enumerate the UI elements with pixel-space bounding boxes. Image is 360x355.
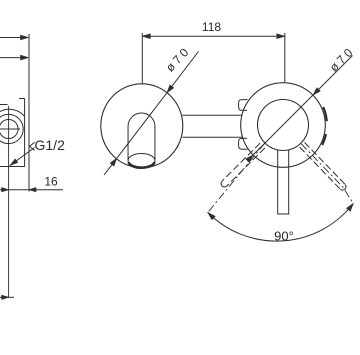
right view: handle escutcheon outer circle bbox=[241, 83, 326, 168]
right view: right slot end cap bbox=[340, 185, 346, 191]
right view: left tab upper bbox=[239, 100, 248, 111]
right ø70 leader bbox=[253, 56, 352, 155]
middle view: spout arch bbox=[128, 113, 155, 161]
middle view: spout outlet bold lower arc bbox=[128, 162, 154, 168]
right view: right position centerline bbox=[301, 144, 353, 204]
G1/2 leader open chevron at text bbox=[30, 142, 35, 150]
right view: left slot end cap bbox=[221, 181, 227, 187]
left view: vertical centerline bbox=[8, 106, 10, 297]
bottom dimension arrow at centerline bbox=[0, 296, 14, 298]
118 dimension line bbox=[142, 35, 284, 37]
connector pipe top line bbox=[183, 114, 243, 116]
left view: housing bottom edge bbox=[0, 166, 25, 168]
right view: handle lever rectangle bbox=[278, 150, 289, 214]
left view: valve inner circle bbox=[0, 120, 18, 139]
right view: handle hub inner circle bbox=[258, 100, 309, 151]
left view: plate front extension line bbox=[28, 34, 30, 192]
left view: valve outer circle bbox=[0, 114, 23, 143]
G1/2 leader bbox=[10, 148, 35, 166]
right view: right tab lower bold bbox=[322, 134, 326, 145]
90 degree arc bbox=[208, 204, 353, 242]
left view: rear body top edge bbox=[0, 104, 8, 106]
right view: dashed handle position left side lines bbox=[222, 143, 265, 186]
connector pipe bottom line bbox=[183, 136, 243, 138]
118 extension line right bbox=[284, 33, 286, 82]
middle ø70 leader bbox=[104, 52, 199, 176]
left view: housing face line bbox=[24, 99, 26, 167]
118 extension line left bbox=[141, 33, 143, 84]
right view: left tab lower bbox=[239, 138, 248, 149]
left view: step at housing top bbox=[19, 98, 25, 100]
16 dimension line bbox=[0, 189, 63, 191]
svg-text:16: 16 bbox=[44, 175, 58, 189]
right view: dashed handle position right side lines bbox=[300, 142, 346, 189]
left view: dimension line lower bbox=[0, 57, 27, 59]
left view: escutcheon arc r20 bbox=[0, 109, 25, 116]
svg-text:90°: 90° bbox=[274, 229, 294, 244]
middle view: spout outlet ellipse bbox=[128, 154, 155, 168]
svg-text:G1/2: G1/2 bbox=[35, 137, 66, 153]
left view: dimension line upper bbox=[0, 37, 27, 39]
middle view: spout escutcheon circle bbox=[101, 84, 183, 168]
svg-text:118: 118 bbox=[202, 20, 221, 34]
right view: left position centerline bbox=[208, 143, 265, 212]
right view: right tab upper bold bbox=[323, 107, 327, 121]
left view: horizontal centerline bbox=[0, 128, 20, 130]
